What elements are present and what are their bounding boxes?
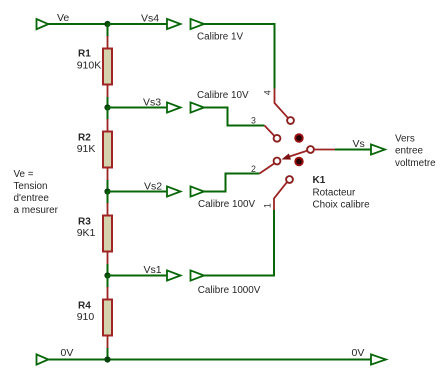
wire pole to Vs (red part) (314, 149, 335, 151)
svg-text:entree: entree (395, 145, 424, 156)
wire node Vs3 to terminal (108, 107, 168, 109)
svg-text:910: 910 (77, 311, 95, 323)
svg-text:0V: 0V (352, 347, 365, 359)
svg-text:9K1: 9K1 (77, 227, 96, 239)
wire R1 to node Vs3 (107, 97, 109, 108)
node Vs2 junction (104, 188, 110, 194)
resistor R1 (103, 36, 112, 97)
terminal Vs2 (167, 186, 181, 196)
terminal Vs (371, 144, 385, 154)
svg-text:Vers: Vers (395, 134, 415, 145)
switch K1 pin 1 lead (274, 182, 287, 210)
wire node Vs2 to terminal (108, 191, 168, 193)
terminal Calibre 100V (191, 186, 205, 196)
terminal Calibre 1V (191, 19, 205, 29)
terminal Vs4 (167, 19, 181, 29)
wire Ve to node A (48, 23, 107, 25)
resistor R2 (103, 108, 112, 192)
wire Calibre 1000V to switch pin 1 (204, 210, 274, 276)
terminal Vs1 (167, 270, 181, 280)
terminal 0V left (37, 354, 49, 364)
node Vs3 junction (104, 104, 110, 110)
svg-text:Calibre 1V: Calibre 1V (197, 32, 244, 43)
wire Calibre 100V to switch pin 2 (204, 174, 260, 192)
pin 2 contact circle (274, 158, 281, 165)
svg-text:Ve =: Ve = (14, 169, 34, 180)
resistor R4 (103, 276, 112, 360)
rotary dot upper (294, 133, 303, 142)
svg-text:0V: 0V (61, 347, 74, 359)
wire pole to Vs (green part) (335, 149, 371, 151)
svg-text:Tension: Tension (14, 181, 48, 192)
annotation Vers entree voltmetre (395, 134, 436, 169)
annotation Ve = Tension d'entree a mesurer (14, 169, 59, 216)
svg-text:91K: 91K (77, 143, 96, 155)
terminal Calibre 1000V (191, 270, 205, 280)
switch K1 pin 2 lead (260, 164, 275, 174)
svg-text:1: 1 (263, 203, 273, 208)
switch K1 pin 4 lead (275, 89, 289, 119)
switch K1 wiper arrow (282, 151, 307, 160)
switch K1 pin 3 lead (265, 126, 275, 136)
svg-text:3: 3 (251, 115, 256, 125)
svg-text:R2: R2 (78, 132, 91, 143)
svg-text:4: 4 (263, 90, 273, 95)
terminal Vs3 (167, 102, 181, 112)
svg-text:Choix calibre: Choix calibre (313, 200, 371, 211)
svg-text:Calibre 10V: Calibre 10V (197, 90, 249, 101)
wire node A to Vs4 terminal (108, 23, 168, 25)
svg-text:Rotacteur: Rotacteur (313, 187, 357, 198)
svg-text:R1: R1 (78, 49, 91, 60)
svg-text:910K: 910K (77, 60, 102, 72)
svg-text:Calibre 1000V: Calibre 1000V (198, 285, 261, 296)
node A junction (104, 21, 110, 27)
svg-text:K1: K1 (313, 175, 326, 186)
svg-text:Vs4: Vs4 (141, 13, 159, 25)
wire node Vs1 to terminal (108, 275, 168, 277)
wire node A to R1 (107, 24, 109, 37)
switch K1 pole circle (307, 146, 314, 153)
svg-text:R4: R4 (78, 300, 91, 311)
terminal 0V right (371, 354, 386, 364)
svg-text:Vs3: Vs3 (143, 96, 161, 108)
rotary dot lower (294, 157, 303, 166)
pin 3 contact circle (274, 135, 281, 142)
resistor R3 (103, 192, 112, 276)
pin 1 contact circle (286, 176, 293, 183)
svg-text:a mesurer: a mesurer (14, 205, 59, 216)
svg-text:Vs1: Vs1 (144, 264, 162, 276)
node Vs1 junction (104, 272, 110, 278)
pin 4 contact circle (287, 117, 294, 124)
wire 0V bus (48, 359, 371, 361)
svg-text:voltmetre: voltmetre (395, 158, 436, 169)
svg-text:R3: R3 (78, 216, 91, 227)
svg-text:Ve: Ve (57, 12, 69, 24)
terminal Calibre 10V (191, 102, 205, 112)
terminal Ve (37, 19, 49, 29)
svg-text:Calibre 100V: Calibre 100V (198, 199, 256, 210)
svg-text:2: 2 (251, 164, 256, 174)
svg-text:d'entree: d'entree (14, 193, 50, 204)
svg-text:Vs: Vs (353, 138, 365, 150)
wire Calibre 1V to switch pin 4 (204, 24, 275, 89)
wire Calibre 10V to switch pin 3 (204, 108, 265, 126)
svg-text:Vs2: Vs2 (144, 180, 162, 192)
node 0V junction (104, 356, 110, 362)
